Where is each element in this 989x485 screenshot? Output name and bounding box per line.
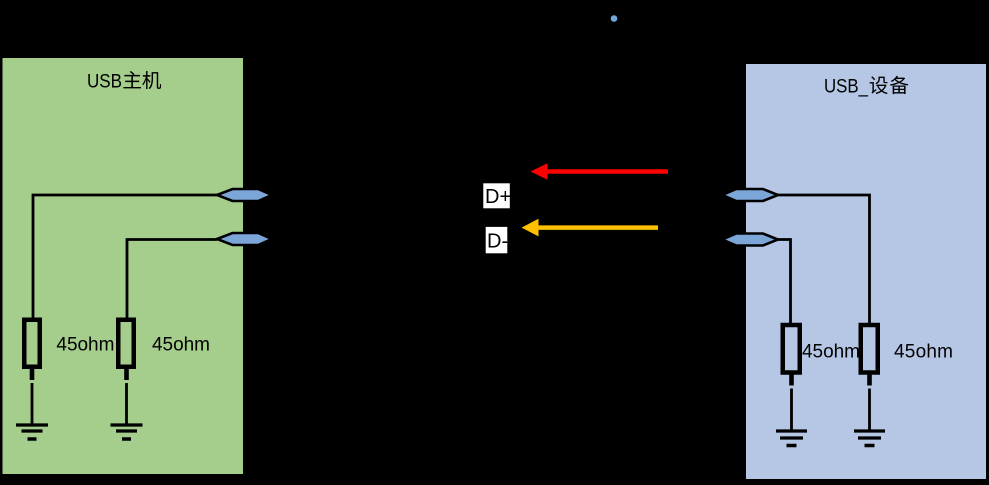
ground host 2: [111, 425, 143, 439]
svg-text:USB_: USB_: [824, 77, 868, 98]
resistor R3: [783, 325, 800, 373]
USB device block: [746, 64, 986, 479]
svg-text:45ohm: 45ohm: [894, 342, 953, 363]
pin device D-: [722, 234, 778, 246]
node label D-: [486, 227, 508, 253]
wire R2 to ground: [125, 383, 128, 424]
node label D+: [483, 183, 511, 208]
pin device D+: [722, 189, 778, 201]
wire host D+: [33, 195, 217, 319]
svg-text:D+: D+: [485, 186, 511, 208]
wire device D+: [778, 195, 870, 324]
orange arrow D- direction: [522, 219, 659, 237]
pin host D-: [217, 233, 272, 245]
ground device 2: [854, 431, 885, 446]
wire device D-: [778, 240, 791, 325]
wire R4 to ground: [868, 389, 871, 430]
resistor R3 bottom lead: [789, 373, 794, 386]
svg-text:USB: USB: [87, 72, 122, 93]
wire host D-: [127, 240, 217, 320]
red arrow D+ direction: [531, 163, 669, 179]
wire R1 to ground: [31, 383, 34, 424]
USB host block: [3, 58, 244, 474]
svg-text:45ohm: 45ohm: [152, 335, 210, 356]
resistor R4: [861, 325, 878, 373]
svg-text:45ohm: 45ohm: [802, 342, 860, 363]
ground host 1: [16, 425, 48, 439]
ground device 1: [776, 431, 807, 446]
pin host D+: [217, 189, 272, 201]
label USB_设备: [824, 76, 908, 98]
resistor R1 bottom lead: [30, 367, 35, 380]
resistor R2 bottom lead: [124, 367, 129, 380]
label USB主机: [87, 71, 161, 93]
svg-text:45ohm: 45ohm: [56, 335, 114, 356]
svg-text:D-: D-: [487, 231, 508, 253]
resistor R4 bottom lead: [867, 373, 872, 386]
resistor R2: [118, 320, 134, 367]
wire R3 to ground: [790, 389, 793, 430]
signal dot: [611, 15, 618, 22]
resistor R1: [24, 320, 40, 367]
